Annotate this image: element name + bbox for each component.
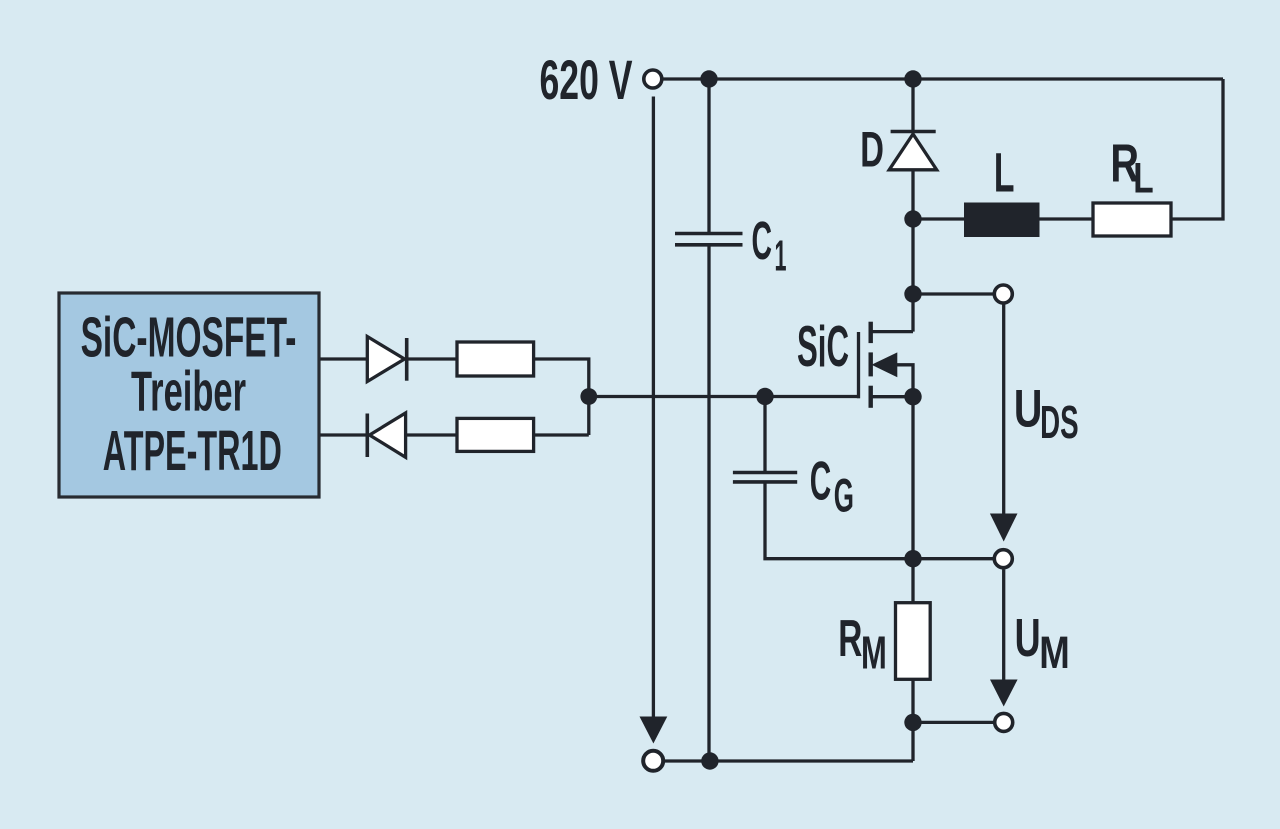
diode D [889, 132, 937, 170]
wire right edge down to RL [1171, 79, 1223, 219]
label UM [1015, 609, 1070, 678]
node UDS top terminal [994, 285, 1012, 303]
svg-text:620 V: 620 V [540, 49, 633, 111]
resistor RM [896, 603, 931, 680]
svg-text:R: R [838, 610, 862, 668]
wire bottom diode to resistor [406, 433, 457, 436]
node junction driver outputs [580, 388, 597, 405]
wire UDS arrow line [1002, 305, 1005, 516]
svg-text:M: M [1039, 627, 1070, 678]
wire bottom resistor to junction [534, 433, 589, 436]
transistor SiC MOSFET [859, 322, 898, 408]
node source [904, 388, 921, 405]
arrow UM head [990, 680, 1018, 707]
svg-text:DS: DS [1040, 396, 1079, 448]
svg-text:D: D [860, 122, 884, 178]
diode bottom (gate off) [367, 413, 405, 457]
wire drain lead [871, 330, 913, 333]
svg-text:C: C [810, 450, 832, 512]
driver box SiC-MOSFET-Treiber ATPE-TR1D [59, 293, 319, 497]
wire drain node to UDS terminal [913, 292, 994, 295]
wire gate lead [589, 395, 860, 398]
wire diode to drain node [911, 170, 914, 332]
node UDS bottom terminal [994, 550, 1012, 568]
label RL [1110, 134, 1153, 202]
node return terminal [643, 751, 663, 771]
label RM [838, 610, 887, 679]
inductor L [964, 203, 1040, 238]
label C1 [752, 211, 787, 281]
resistor gate-on [457, 342, 534, 376]
wire CG lower lead and run to UM terminal [765, 482, 994, 559]
wire driver top output [319, 357, 367, 360]
wire L to RL [1040, 217, 1094, 220]
wire source lead [871, 395, 913, 398]
label UDS [1014, 380, 1079, 448]
wire C1 branch lower [707, 245, 710, 761]
node junction L row [904, 210, 921, 227]
wire L row left [913, 217, 964, 220]
node measure bottom [904, 714, 921, 731]
wire CG upper lead [763, 397, 766, 473]
svg-text:U: U [1014, 380, 1043, 439]
svg-text:1: 1 [775, 233, 787, 281]
node junction top C1 [700, 70, 717, 87]
resistor RL [1093, 203, 1171, 236]
capacitor C1 [675, 234, 743, 245]
wire body diode connection [896, 365, 913, 397]
node measure top [904, 550, 921, 567]
wire bottom rail [664, 759, 913, 762]
wire driver bottom output [319, 433, 367, 436]
arrow UDS head [990, 514, 1018, 542]
svg-text:M: M [861, 626, 887, 678]
ground arrow (return) [640, 717, 668, 744]
node drain [904, 285, 921, 302]
wire top rail [663, 77, 1223, 80]
node gate CG junction [756, 388, 773, 405]
wire measure node to UM terminal [913, 721, 994, 724]
wire source column [911, 397, 914, 603]
svg-text:U: U [1015, 609, 1041, 668]
svg-text:ATPE-TR1D: ATPE-TR1D [103, 419, 282, 482]
wire C1 branch upper [707, 79, 710, 234]
resistor gate-off [457, 418, 534, 451]
label CG [810, 450, 854, 522]
diode top (gate on) [367, 337, 406, 382]
wire top diode to resistor [407, 357, 457, 360]
wire 620V return vertical [652, 97, 655, 719]
wire RM bottom to rail [911, 679, 914, 761]
node UM terminal [995, 713, 1013, 731]
svg-text:SiC: SiC [797, 315, 849, 379]
svg-text:L: L [994, 142, 1015, 204]
wire UM arrow line [1002, 570, 1005, 682]
node junction bottom C1 [701, 752, 718, 769]
capacitor CG [733, 473, 797, 482]
svg-text:Treiber: Treiber [131, 360, 246, 423]
node 620V terminal [644, 70, 662, 88]
svg-text:L: L [1133, 155, 1153, 202]
wire top resistor to junction [534, 359, 589, 435]
wire drain column top [911, 79, 914, 133]
svg-text:C: C [752, 211, 773, 271]
node junction top drain column [904, 70, 921, 87]
svg-text:G: G [834, 469, 854, 522]
